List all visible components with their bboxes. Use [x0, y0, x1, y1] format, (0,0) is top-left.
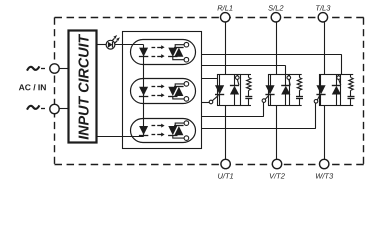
- svg-text:U/T1: U/T1: [217, 171, 233, 180]
- svg-text:T/L3: T/L3: [315, 3, 331, 12]
- svg-text:INPUT CIRCUIT: INPUT CIRCUIT: [76, 34, 92, 140]
- svg-text:R/L1: R/L1: [217, 3, 233, 12]
- svg-text:V/T2: V/T2: [269, 171, 286, 180]
- svg-text:S/L2: S/L2: [268, 3, 284, 12]
- svg-text:AC / IN: AC / IN: [19, 82, 47, 92]
- svg-text:W/T3: W/T3: [315, 171, 334, 180]
